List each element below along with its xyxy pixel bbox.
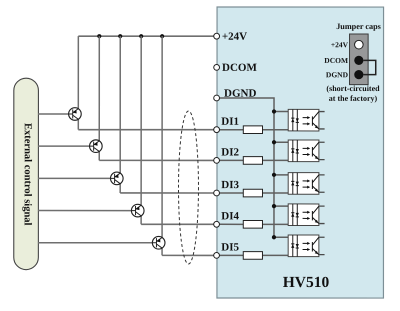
svg-text:DI2: DI2 <box>221 147 239 159</box>
svg-text:External control signal: External control signal <box>22 123 33 226</box>
svg-text:DI3: DI3 <box>221 179 239 191</box>
svg-text:at the factory): at the factory) <box>329 94 378 103</box>
svg-text:HV510: HV510 <box>283 274 330 291</box>
svg-text:DCOM: DCOM <box>222 62 257 74</box>
svg-text:(short-circuited: (short-circuited <box>326 84 380 93</box>
svg-text:DGND: DGND <box>224 88 256 100</box>
svg-text:DI5: DI5 <box>221 242 239 254</box>
svg-text:DI4: DI4 <box>221 210 239 222</box>
svg-text:+24V: +24V <box>331 40 349 49</box>
svg-text:DCOM: DCOM <box>324 56 348 65</box>
svg-text:Jumper caps: Jumper caps <box>336 22 381 31</box>
svg-text:DGND: DGND <box>326 70 349 79</box>
svg-text:+24V: +24V <box>222 31 247 43</box>
svg-text:DI1: DI1 <box>221 116 239 128</box>
